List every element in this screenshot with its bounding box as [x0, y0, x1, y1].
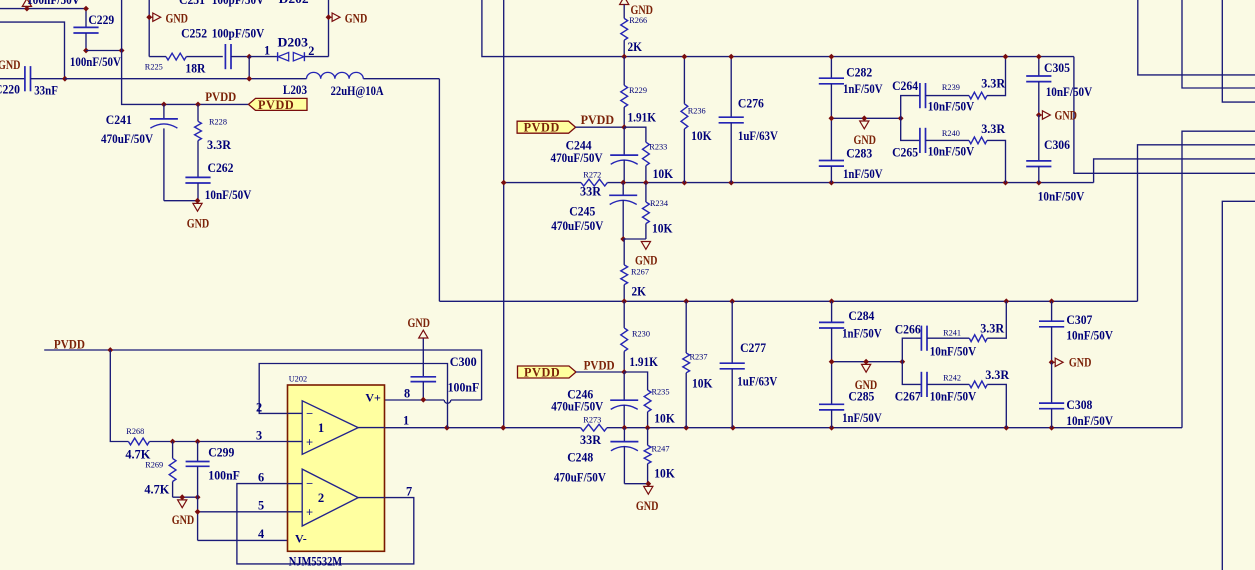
svg-text:3: 3: [256, 429, 262, 443]
svg-text:1: 1: [403, 414, 409, 428]
svg-text:4.7K: 4.7K: [125, 448, 150, 462]
svg-text:2: 2: [308, 44, 314, 58]
resistor R239: [969, 54, 1008, 99]
svg-text:R235: R235: [652, 388, 670, 397]
svg-text:10nF/50V: 10nF/50V: [1066, 329, 1113, 343]
svg-text:PVDD: PVDD: [258, 98, 294, 112]
label R233: [649, 143, 667, 152]
label 1.91K (R230): [629, 355, 658, 369]
capacitor C300: [411, 338, 437, 403]
label PVDD net (op-amp): [54, 337, 85, 351]
wire pin 4 net: [198, 539, 288, 541]
svg-text:GND: GND: [854, 133, 877, 147]
label C282: [846, 66, 872, 80]
label 10nF/50V (C264): [928, 99, 975, 113]
gnd power port (above R266): [620, 0, 629, 5]
svg-text:4.7K: 4.7K: [144, 483, 169, 497]
capacitor C246 (electrolytic): [610, 372, 638, 428]
label R272: [583, 171, 601, 180]
label 3.3R (R228): [207, 138, 231, 152]
svg-text:100nF/50V: 100nF/50V: [70, 55, 121, 69]
svg-text:C241: C241: [106, 113, 132, 127]
svg-text:C284: C284: [848, 309, 874, 323]
node junctions row D: [444, 425, 1055, 431]
gnd power port (left of C251 loop): [146, 13, 160, 21]
svg-text:R266: R266: [629, 16, 647, 25]
capacitor C244 (electrolytic): [610, 127, 638, 182]
wire pin 6 feedback loop: [237, 484, 414, 564]
label C277: [740, 341, 766, 355]
label R225: [145, 62, 163, 71]
wire row A right exit: [1074, 57, 1255, 174]
svg-text:100nF/50V: 100nF/50V: [27, 0, 80, 7]
label C241: [106, 113, 132, 127]
capacitor C252: [225, 44, 249, 69]
svg-text:2: 2: [318, 491, 324, 505]
svg-text:R272: R272: [583, 171, 601, 180]
svg-text:10K: 10K: [654, 411, 675, 425]
svg-text:3.3R: 3.3R: [980, 322, 1004, 336]
capacitor C245 (electrolytic): [609, 183, 637, 242]
label R269: [145, 461, 163, 470]
label 100nF (C300): [448, 380, 480, 394]
svg-text:1.91K: 1.91K: [628, 111, 657, 125]
label C262: [208, 161, 234, 175]
svg-text:470uF/50V: 470uF/50V: [554, 471, 606, 485]
capacitor C299: [186, 442, 210, 541]
label 1nF/50V (C285): [842, 411, 882, 425]
svg-text:470uF/50V: 470uF/50V: [551, 400, 603, 414]
svg-text:1nF/50V: 1nF/50V: [842, 327, 882, 341]
svg-text:10K: 10K: [653, 167, 674, 181]
resistor R240: [969, 137, 1006, 183]
wire row A with left drop: [482, 0, 1074, 57]
label R267: [631, 268, 649, 277]
svg-text:C220: C220: [0, 82, 20, 96]
svg-text:C266: C266: [895, 322, 921, 336]
svg-text:22uH@10A: 22uH@10A: [331, 84, 384, 98]
label R241: [943, 328, 961, 337]
inductor L203: [307, 72, 364, 78]
label 2 (amp): [318, 491, 324, 505]
power port PVDD (upper): [517, 121, 576, 135]
capacitor C266: [902, 326, 969, 362]
label L203: [283, 83, 307, 97]
gnd power port (clipped, top-left): [22, 0, 31, 11]
svg-text:10nF/50V: 10nF/50V: [1046, 85, 1093, 99]
node junctions row B: [501, 180, 1042, 186]
svg-text:GND: GND: [636, 499, 659, 513]
label 470uF/50V (C241): [101, 132, 153, 146]
label C283: [846, 147, 872, 161]
capacitor C248 (electrolytic): [610, 428, 648, 484]
op-amp U202 body: [288, 385, 385, 551]
node junction R228: [195, 102, 201, 108]
power port PVDD (top-left): [249, 98, 308, 112]
pin 6 number: [258, 471, 264, 485]
pin 3 number: [256, 429, 262, 443]
ground (lower mid): [644, 481, 653, 494]
label C265: [892, 146, 918, 160]
svg-text:6: 6: [258, 471, 264, 485]
label C306: [1044, 138, 1070, 152]
gnd power port (C305/C306): [1036, 111, 1050, 119]
wire node to R233: [624, 127, 646, 142]
ground (R269/C299): [178, 500, 187, 508]
label 4.7K (R268): [125, 448, 150, 462]
op-amp 1 signs: [306, 407, 313, 450]
svg-text:470uF/50V: 470uF/50V: [101, 132, 153, 146]
wire C229 to vertical: [86, 48, 125, 54]
svg-text:5: 5: [258, 499, 264, 513]
ground (mid upper): [860, 115, 869, 128]
label 100pF/50V (C252): [212, 27, 265, 41]
label D202 (clipped): [279, 0, 309, 6]
node junction C241: [161, 102, 167, 108]
label R242: [943, 373, 961, 382]
label C244: [566, 139, 592, 153]
svg-text:GND: GND: [345, 11, 368, 25]
label GND (R269): [172, 513, 195, 527]
svg-text:1: 1: [318, 421, 324, 435]
svg-text:C262: C262: [208, 161, 234, 175]
svg-text:10nF/50V: 10nF/50V: [928, 99, 975, 113]
label 1 (amp): [318, 421, 324, 435]
label 100nF/50V (C229): [70, 55, 121, 69]
label V-: [295, 532, 307, 546]
label PVDD net (top): [205, 90, 236, 104]
label 4.7K (R269): [144, 483, 169, 497]
svg-text:3.3R: 3.3R: [207, 138, 231, 152]
label C285: [848, 390, 874, 404]
svg-text:470uF/50V: 470uF/50V: [551, 219, 603, 233]
gnd power port (C307/C308): [1049, 358, 1063, 366]
svg-text:470uF/50V: 470uF/50V: [551, 151, 603, 165]
svg-text:3.3R: 3.3R: [981, 122, 1005, 136]
svg-text:R230: R230: [632, 329, 650, 338]
label 2K (R267): [632, 285, 647, 299]
label 10K (R237): [692, 377, 713, 391]
wire bus exit 2: [1182, 0, 1255, 88]
label R228: [209, 118, 227, 127]
svg-text:R242: R242: [943, 373, 961, 382]
svg-text:1.91K: 1.91K: [629, 355, 658, 369]
svg-text:R273: R273: [583, 416, 601, 425]
label 2K (R266): [628, 40, 643, 54]
svg-text:GND: GND: [187, 216, 210, 230]
node junction row A / R266: [621, 54, 627, 60]
label C308: [1066, 398, 1092, 412]
wire C251 loop right vertical: [328, 0, 330, 57]
label 10nF/50V (C308): [1066, 414, 1113, 428]
svg-text:C300: C300: [450, 355, 477, 369]
op-amp 1 triangle: [288, 401, 385, 455]
resistor R242: [969, 381, 1006, 428]
wire pin 2 feedback loop: [259, 364, 447, 428]
wire C241 bottom: [164, 200, 198, 202]
svg-text:−: −: [306, 477, 313, 491]
capacitor C282: [819, 54, 844, 119]
label 10nF/50V (C306): [1038, 190, 1085, 204]
svg-text:C265: C265: [892, 146, 918, 160]
svg-text:R237: R237: [690, 353, 708, 362]
label PVDD net (upper): [581, 113, 615, 127]
label C229: [88, 13, 114, 27]
label GND (C262): [187, 216, 210, 230]
pin 5 number: [258, 499, 264, 513]
wire vertical to PVDD row: [122, 0, 249, 104]
label C252: [181, 27, 207, 41]
svg-text:C282: C282: [846, 66, 872, 80]
wire row C: [439, 300, 1137, 302]
resistor R247: [644, 428, 651, 484]
label GND: [345, 11, 368, 25]
label R237: [690, 353, 708, 362]
wire PVDD rail to V+: [44, 347, 481, 400]
capacitor C262: [185, 177, 210, 200]
label GND: [166, 11, 189, 25]
label C276: [738, 97, 764, 111]
svg-text:R228: R228: [209, 118, 227, 127]
svg-text:GND: GND: [408, 316, 431, 330]
label 10K (R234): [652, 222, 673, 236]
capacitor C285: [819, 362, 844, 428]
wire node to R235: [624, 372, 647, 390]
label 1nF/50V (C284): [842, 327, 882, 341]
svg-text:R268: R268: [126, 427, 144, 436]
label R234: [650, 199, 669, 208]
svg-text:GND: GND: [635, 254, 658, 268]
svg-text:C229: C229: [88, 13, 114, 27]
wire corner left: [0, 22, 65, 79]
svg-text:PVDD: PVDD: [54, 337, 85, 351]
svg-text:C308: C308: [1066, 398, 1092, 412]
label 3.3R (R241): [980, 322, 1004, 336]
label C266: [895, 322, 921, 336]
svg-text:GND: GND: [172, 513, 195, 527]
label 33nF: [34, 84, 58, 98]
svg-text:C245: C245: [569, 205, 595, 219]
wire L203 row: [65, 78, 440, 80]
label R230: [632, 329, 650, 338]
svg-text:3.3R: 3.3R: [985, 368, 1009, 382]
resistor R237: [683, 301, 690, 427]
label R268: [126, 427, 144, 436]
svg-text:10K: 10K: [654, 467, 675, 481]
pin 4 number: [258, 527, 264, 541]
label 100pF/50V (clipped): [212, 0, 265, 7]
label 1.91K (R229): [628, 111, 657, 125]
label 470uF/50V (C245): [551, 219, 603, 233]
svg-text:100nF: 100nF: [208, 469, 240, 483]
svg-text:D203: D203: [278, 35, 309, 49]
resistor R241: [969, 301, 1006, 341]
wire row B right exit: [1094, 159, 1255, 183]
pin 1 number: [403, 414, 409, 428]
svg-text:33R: 33R: [580, 185, 601, 199]
wire long vertical (feedback): [503, 0, 505, 428]
label R247: [652, 445, 670, 454]
label PVDD net (lower): [584, 359, 615, 373]
wire row D right exit: [1182, 131, 1255, 428]
svg-text:1nF/50V: 1nF/50V: [843, 167, 883, 181]
pin 7 number: [406, 485, 412, 499]
label R229: [629, 86, 647, 95]
svg-text:1nF/50V: 1nF/50V: [842, 411, 882, 425]
svg-text:10nF/50V: 10nF/50V: [928, 144, 975, 158]
svg-text:PVDD: PVDD: [524, 121, 560, 135]
label 470uF/50V (C244): [551, 151, 603, 165]
svg-text:PVDD: PVDD: [205, 90, 236, 104]
wire jog C245/R234: [623, 238, 646, 240]
label C267: [895, 390, 921, 404]
wire row C right exit: [1138, 145, 1255, 301]
op-amp 2 triangle: [288, 469, 385, 526]
svg-text:GND: GND: [1069, 356, 1092, 370]
svg-text:C267: C267: [895, 390, 921, 404]
label GND (mid upper): [854, 133, 877, 147]
label 10nF/50V (C307): [1066, 329, 1113, 343]
label C251 (clipped): [179, 0, 205, 7]
svg-text:NJM5532M: NJM5532M: [289, 555, 343, 569]
svg-text:1uF/63V: 1uF/63V: [738, 129, 778, 143]
wire PVDD drop to R268: [110, 350, 128, 442]
svg-text:+: +: [306, 506, 313, 520]
capacitor C220: [0, 66, 68, 91]
svg-text:C251: C251: [179, 0, 205, 7]
ground (upper mid): [641, 242, 650, 250]
label 1uF/63V (C277): [737, 375, 777, 389]
resistor R225: [149, 53, 223, 60]
svg-text:10K: 10K: [692, 377, 713, 391]
label 1nF/50V (C283): [843, 167, 883, 181]
svg-text:2: 2: [256, 401, 262, 415]
label GND (upper mid): [635, 254, 658, 268]
gnd power port (C300): [419, 330, 428, 338]
svg-text:PVDD: PVDD: [584, 359, 615, 373]
resistor R228: [195, 104, 202, 177]
svg-text:GND: GND: [0, 58, 21, 72]
svg-text:100pF/50V: 100pF/50V: [212, 27, 265, 41]
capacitor C264: [901, 83, 969, 118]
capacitor C276: [719, 54, 744, 183]
label 10K (R233): [653, 167, 674, 181]
capacitor C241 (electrolytic): [150, 104, 178, 200]
svg-text:7: 7: [406, 485, 412, 499]
resistor R236: [681, 54, 688, 183]
svg-text:C306: C306: [1044, 138, 1070, 152]
svg-text:18R: 18R: [185, 62, 205, 76]
label U202: [289, 375, 307, 384]
resistor R230: [621, 301, 628, 372]
wire stub to L203 row: [246, 57, 252, 82]
svg-text:2K: 2K: [632, 285, 647, 299]
resistor R267: [621, 239, 628, 301]
label C220 (clipped left): [0, 82, 20, 96]
label GND (lower mid): [636, 499, 659, 513]
svg-text:C276: C276: [738, 97, 764, 111]
label 10K (R235): [654, 411, 675, 425]
svg-text:C252: C252: [181, 27, 207, 41]
label 10nF/50V (C262): [205, 188, 252, 202]
gnd power port (right of C251 loop): [326, 13, 340, 21]
svg-text:10K: 10K: [652, 222, 673, 236]
wire row D (output): [385, 427, 1183, 429]
label D203: [278, 35, 309, 49]
wire PVDD to node: [576, 124, 628, 130]
svg-text:R233: R233: [649, 143, 667, 152]
capacitor C277: [720, 301, 745, 427]
svg-text:V-: V-: [295, 532, 307, 546]
label GND (C307): [1069, 356, 1092, 370]
svg-text:10nF/50V: 10nF/50V: [930, 344, 977, 358]
pin 2 number: [256, 401, 262, 415]
wire top-left net: [0, 8, 86, 10]
capacitor C265: [901, 118, 969, 153]
label R236: [688, 107, 706, 116]
label R235: [652, 388, 670, 397]
label R239: [942, 83, 960, 92]
resistor R235: [644, 390, 651, 428]
svg-text:C305: C305: [1044, 61, 1070, 75]
wire bus exit 1: [1138, 0, 1255, 75]
label 22uH@10A: [331, 84, 384, 98]
label 33R (R273): [580, 433, 601, 447]
wire bus exit 4: [1222, 201, 1255, 570]
resistor R273: [581, 424, 607, 431]
label R273: [583, 416, 601, 425]
label NJM5532M: [289, 555, 343, 569]
label 470uF/50V (C246): [551, 400, 603, 414]
label 10nF/50V (C266): [930, 344, 977, 358]
svg-text:10nF/50V: 10nF/50V: [930, 390, 977, 404]
label 3.3R (R242): [985, 368, 1009, 382]
svg-text:R247: R247: [652, 445, 670, 454]
svg-text:C299: C299: [208, 446, 234, 460]
label R266: [629, 16, 647, 25]
pin 8 number: [404, 387, 410, 401]
svg-text:R267: R267: [631, 268, 649, 277]
svg-text:33nF: 33nF: [34, 84, 58, 98]
wire row B: [504, 182, 1094, 184]
label R240: [942, 129, 960, 138]
label V+: [365, 391, 381, 405]
svg-text:10nF/50V: 10nF/50V: [205, 188, 252, 202]
wire pin 5 net: [195, 509, 288, 515]
label 10nF/50V (C305): [1046, 85, 1093, 99]
svg-text:GND: GND: [855, 378, 878, 392]
label 1nF/50V (C282): [843, 82, 883, 96]
svg-text:C283: C283: [846, 147, 872, 161]
svg-text:C277: C277: [740, 341, 766, 355]
capacitor C229: [73, 6, 98, 54]
resistor R233: [643, 142, 650, 182]
wire pin 8 (V+): [385, 400, 482, 403]
label 10nF/50V (C265): [928, 144, 975, 158]
label 10nF/50V (C267): [930, 390, 977, 404]
label C264: [892, 79, 918, 93]
capacitor C306: [1026, 115, 1051, 183]
svg-text:C307: C307: [1066, 313, 1092, 327]
node junctions bias: [170, 439, 201, 445]
label GND (C300): [408, 316, 431, 330]
resistor R268: [128, 438, 287, 445]
svg-text:L203: L203: [283, 83, 307, 97]
op-amp 2 signs: [306, 477, 313, 520]
svg-text:PVDD: PVDD: [581, 113, 615, 127]
wire mid gnd net: [829, 115, 904, 121]
svg-text:C264: C264: [892, 79, 918, 93]
